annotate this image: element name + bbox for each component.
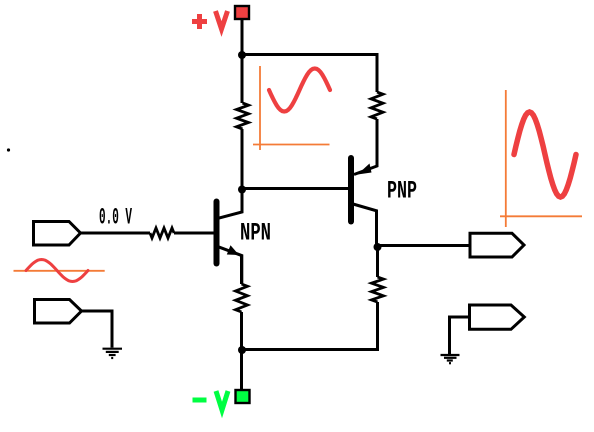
wire NPN emitter to R3	[240, 255, 243, 284]
ground (lower left)	[103, 349, 123, 358]
node NPN collector junction	[238, 186, 246, 194]
wire output	[378, 244, 471, 247]
scope inset top (axes)	[253, 66, 330, 150]
transistor Q1 collector lead	[218, 190, 242, 218]
terminal output flag	[470, 233, 524, 257]
wire right-top vertical	[376, 53, 379, 92]
transistor Q1 emitter lead	[218, 247, 242, 284]
label 0.0 V	[99, 205, 132, 231]
wire +V vertical	[241, 19, 244, 56]
stray dot	[7, 148, 10, 151]
resistor R1 (NPN collector, left)	[237, 103, 249, 129]
ground (lower right)	[441, 355, 460, 363]
resistor R4 (PNP collector)	[372, 277, 384, 302]
transistor Q1 emitter arrow (points away)	[227, 245, 239, 255]
svg-text:0.0 V: 0.0 V	[99, 205, 132, 231]
scope inset top waveform	[269, 69, 330, 112]
wire bottom rail	[242, 302, 378, 350]
terminal input flag	[34, 222, 81, 246]
node top junction	[238, 51, 246, 59]
resistor R5 input	[150, 228, 174, 238]
resistor R2 (PNP emitter, top right)	[371, 92, 383, 119]
transistor Q2 collector lead	[353, 204, 377, 247]
wire left vertical (to R1)	[241, 55, 244, 103]
label PNP	[387, 177, 417, 206]
wire input	[80, 232, 150, 235]
wire R3 to -V	[240, 312, 243, 390]
scope inset right waveform	[514, 112, 576, 197]
wire top rail horizontal	[242, 53, 379, 56]
transistor Q2 PNP bar	[348, 158, 354, 222]
label NPN	[240, 219, 271, 248]
wire source to ground	[81, 311, 113, 348]
wire R1 to NPN collector node	[241, 129, 244, 203]
svg-text:PNP: PNP	[387, 177, 417, 206]
wire R5 to NPN base	[174, 232, 216, 235]
scope inset left waveform	[26, 260, 88, 282]
scope inset right axes	[500, 90, 582, 227]
wire flag to ground	[450, 317, 471, 355]
label + V	[192, 11, 228, 29]
node output junction	[374, 243, 382, 251]
transistor Q2 emitter arrow (points into bar)	[358, 164, 372, 175]
terminal +V square	[235, 6, 249, 19]
scope inset left axis	[14, 270, 105, 272]
label - V	[193, 391, 229, 410]
wire collector node to PNP base	[242, 187, 349, 190]
terminal ground flag (lower right)	[470, 305, 525, 329]
resistor R3 (NPN emitter)	[236, 284, 248, 312]
terminal -V square	[236, 390, 250, 403]
terminal source flag (lower left)	[35, 300, 82, 324]
transistor Q1 NPN bar	[214, 202, 220, 264]
svg-text:NPN: NPN	[240, 219, 271, 248]
wire R4 to output node	[376, 247, 379, 277]
node bottom junction	[238, 346, 246, 354]
wire R2 to PNP emitter	[354, 119, 377, 175]
